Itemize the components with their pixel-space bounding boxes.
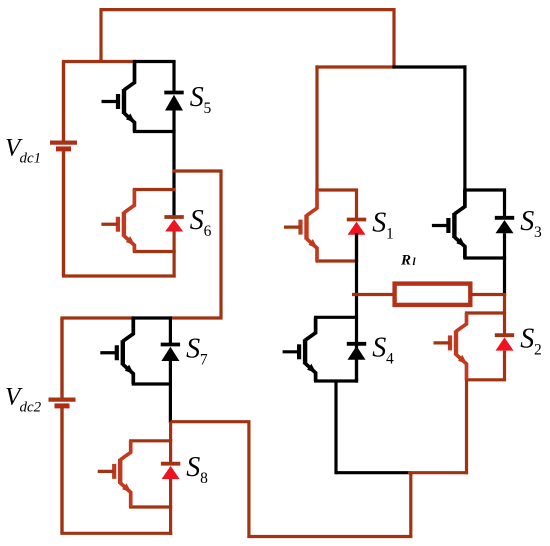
svg-text:6: 6: [204, 223, 212, 240]
wire: Vdc2- bottom rail: [60, 532, 172, 535]
node A: load wire left: [352, 293, 394, 296]
diode D1 (antiparallel of S1): [347, 220, 366, 262]
transistor S1 IGBT S1: [284, 190, 358, 261]
wire: leg2 S7-S8 link (black): [169, 384, 172, 423]
diode D6 (antiparallel of S6): [164, 217, 183, 252]
wire: S2 leg down to bottom rail: [465, 380, 468, 475]
svg-text:S: S: [520, 323, 534, 354]
svg-text:5: 5: [204, 100, 212, 117]
svg-text:S: S: [186, 333, 200, 364]
svg-text:S: S: [190, 205, 204, 236]
svg-text:S: S: [372, 208, 386, 239]
wire: H-bridge bottom rail (red part): [408, 471, 468, 474]
wire: Vdc1- bottom rail: [62, 274, 176, 277]
svg-text:S: S: [520, 206, 534, 237]
svg-text:l: l: [413, 256, 417, 268]
wire: leg1 midpoint across and down to S7 node: [169, 171, 221, 318]
wire: Vdc1+ rail to S5: [62, 60, 136, 63]
svg-text:1: 1: [386, 226, 394, 243]
transistor S3 IGBT S3: [432, 190, 506, 258]
diode D3 (antiparallel of S3): [495, 190, 514, 258]
wire: leg1 S5-S6 link (black): [172, 132, 175, 219]
wire: right H-bridge leg drop to S3: [463, 65, 466, 191]
transistor S7 IGBT S7: [100, 318, 172, 384]
svg-text:3: 3: [534, 224, 542, 241]
svg-text:2: 2: [534, 341, 542, 358]
wire: S1 top rail drop to diode (red): [355, 190, 358, 220]
wire: S4 leg down to bottom rail: [334, 381, 337, 474]
wire: load node down to S2 (red): [503, 293, 506, 335]
resistor Rl (load): [395, 284, 471, 305]
wire: leg2 midpoint to H-bridge bottom: [170, 422, 410, 537]
transistor S2 IGBT S2: [434, 313, 507, 380]
node B: load wire right: [471, 293, 506, 296]
svg-text:8: 8: [200, 470, 208, 487]
wire: H-bridge bottom rail (black part): [336, 471, 411, 474]
wire: Vdc1+ node up and across top to H-bridge: [101, 10, 394, 67]
battery Vdc1 (Vdc1): [50, 62, 77, 277]
svg-text:7: 7: [200, 351, 208, 368]
diode D2 (antiparallel of S2): [495, 335, 514, 380]
wire: leg2 bottom to Vdc2- rail: [169, 507, 172, 535]
transistor S8 IGBT S8: [98, 441, 173, 507]
svg-text:dc1: dc1: [20, 151, 42, 167]
svg-text:4: 4: [386, 350, 394, 367]
battery Vdc2 (Vdc2): [49, 318, 76, 533]
transistor S6 IGBT S6: [101, 190, 175, 252]
wire: left H-bridge leg drop to S1: [315, 65, 318, 191]
transistor S4 IGBT S4: [283, 317, 359, 381]
diode D8 (antiparallel of S8): [161, 464, 180, 507]
wire: H-bridge top rail (red part): [315, 65, 395, 68]
svg-text:S: S: [372, 332, 386, 363]
wire: leg1 bottom to Vdc1- rail: [173, 252, 176, 278]
transistor S5 IGBT S5: [102, 62, 176, 132]
wire: S8 junction down to diode (red): [169, 422, 172, 464]
diode D7 (antiparallel of S7): [161, 318, 180, 384]
wire: H-bridge top rail (black part): [392, 65, 466, 68]
svg-text:S: S: [190, 82, 204, 113]
svg-text:R: R: [400, 253, 411, 269]
wire: S3 bottom to load node (black): [503, 258, 506, 296]
svg-text:dc2: dc2: [20, 400, 42, 416]
wire: Vdc2+ rail to S7: [60, 316, 134, 319]
diode D5 (antiparallel of S5): [164, 62, 183, 132]
svg-text:S: S: [186, 452, 200, 483]
wire: H-bridge left mid vertical (black): [355, 233, 358, 383]
diode D4 (antiparallel of S4): [347, 344, 366, 381]
